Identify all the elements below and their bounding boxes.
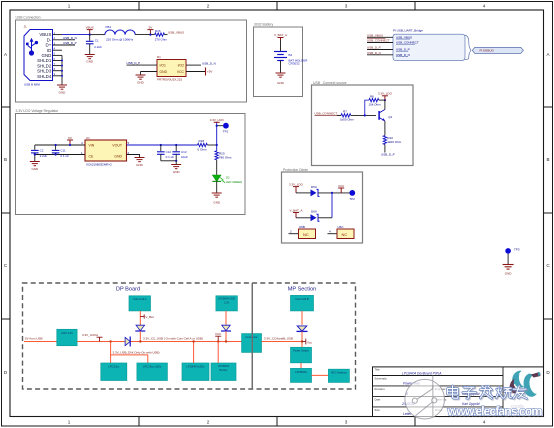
- svg-text:B: B: [4, 157, 7, 162]
- svg-text:TP3: TP3: [514, 247, 520, 251]
- svg-text:C12: C12: [166, 150, 172, 154]
- svg-text:CE: CE: [89, 154, 95, 158]
- divider overlay: [251, 283, 253, 389]
- ground U1: [135, 158, 145, 162]
- capacitor C13: [175, 144, 177, 146]
- wire VBUS rail: [62, 34, 90, 36]
- power 3.3V_LDO: [216, 122, 218, 145]
- title block frame: [373, 367, 544, 417]
- wire to net: [384, 145, 386, 153]
- svg-text:DP Board: DP Board: [116, 286, 140, 292]
- svg-text:GND: GND: [173, 170, 181, 174]
- wire USB_D_P to chip: [127, 64, 158, 66]
- wire to NFC: [312, 374, 329, 376]
- svg-text:5V: 5V: [68, 136, 72, 140]
- svg-text:PRTR5V0U2X,215: PRTR5V0U2X,215: [157, 77, 182, 81]
- watermark circle logo: [405, 376, 445, 420]
- svg-text:2: 2: [207, 420, 210, 425]
- svg-text:D5A: D5A: [311, 185, 317, 189]
- svg-text:FB1: FB1: [106, 25, 112, 29]
- node base junction: [364, 114, 366, 116]
- svg-text:Coin Cell A: Coin Cell A: [133, 297, 147, 301]
- svg-text:USB_VBUS: USB_VBUS: [396, 35, 412, 39]
- svg-text:USB_CONNECT: USB_CONNECT: [396, 41, 419, 45]
- transistor Q1: [379, 110, 385, 121]
- svg-text:0.1 uF: 0.1 uF: [60, 154, 69, 158]
- wire USB_D_N out: [186, 64, 201, 66]
- wire down: [225, 311, 227, 325]
- svg-text:1k00 Ohm: 1k00 Ohm: [340, 118, 354, 122]
- svg-text:USB_D_N: USB_D_N: [396, 53, 410, 57]
- node 3.3V junction: [216, 144, 218, 146]
- svg-text:270 Ohm: 270 Ohm: [155, 38, 168, 42]
- wire LDO to rail: [77, 341, 242, 343]
- svg-text:4: 4: [483, 4, 486, 9]
- svg-text:3.3V_USB_DN( Only On with USB): 3.3V_USB_DN( Only On with USB): [113, 350, 160, 354]
- ground connector shield: [57, 85, 67, 89]
- svg-text:Vcc: Vcc: [307, 341, 313, 345]
- emitter wire: [384, 121, 386, 136]
- block Coin Cell A: [129, 296, 151, 311]
- svg-text:GND: GND: [213, 201, 221, 205]
- capacitor C12: [160, 144, 162, 146]
- node: [149, 34, 151, 36]
- wire: [280, 40, 282, 52]
- node collector top: [384, 99, 386, 101]
- svg-text:GND: GND: [86, 60, 94, 64]
- connector pin names: [37, 32, 52, 79]
- svg-text:R6: R6: [370, 95, 374, 99]
- wire GND pin: [127, 155, 140, 158]
- svg-text:R7: R7: [343, 110, 347, 114]
- svg-text:TP1: TP1: [223, 130, 229, 134]
- svg-text:D6A: D6A: [311, 210, 317, 214]
- ground input caps: [30, 162, 40, 166]
- svg-text:GND: GND: [160, 70, 168, 74]
- wire switch to LPCB404: [300, 363, 302, 369]
- svg-text:SHLD4: SHLD4: [37, 74, 52, 79]
- svg-text:GND: GND: [137, 80, 145, 84]
- svg-text:B: B: [546, 157, 549, 162]
- wire to vertical: [318, 217, 332, 219]
- svg-text:Q1: Q1: [388, 115, 392, 119]
- block Connector: [242, 334, 262, 353]
- svg-text:USB Connection: USB Connection: [16, 16, 41, 20]
- wire coin cell A down: [139, 311, 141, 325]
- block LPCB404 LEDs: [182, 363, 209, 381]
- svg-text:PI USB_UART_Bridge: PI USB_UART_Bridge: [393, 29, 423, 33]
- svg-text:VOUT: VOUT: [112, 144, 123, 148]
- svg-text:0.1 uF: 0.1 uF: [166, 155, 175, 159]
- capacitor C2: [34, 145, 36, 150]
- svg-text:3.3V_CC_USB ( On with Coin Cel: 3.3V_CC_USB ( On with Coin Cell A or USB…: [143, 337, 203, 341]
- node: [331, 192, 333, 194]
- svg-text:VIN: VIN: [89, 144, 95, 148]
- block NFC Antenna: [328, 369, 349, 382]
- svg-text:U6C: U6C: [338, 225, 345, 229]
- svg-text:GND: GND: [277, 81, 285, 85]
- svg-text:www.elecfans.com: www.elecfans.com: [447, 404, 543, 418]
- svg-text:3032 Battery: 3032 Battery: [254, 23, 274, 27]
- block LPC13xx: [101, 363, 127, 381]
- svg-text:Size:: Size:: [375, 408, 381, 412]
- svg-text:J1: J1: [24, 25, 28, 29]
- svg-text:USB_CONNECT: USB_CONNECT: [315, 111, 338, 115]
- diode B down: [222, 325, 231, 331]
- test point TP1: [217, 125, 223, 127]
- wire to base junction: [351, 114, 376, 116]
- wire: [280, 61, 282, 74]
- logo bird: [510, 371, 542, 398]
- svg-text:NC: NC: [303, 232, 309, 237]
- svg-text:GND: GND: [31, 167, 39, 171]
- ground ESD: [136, 75, 146, 79]
- svg-text:USB_D_N: USB_D_N: [63, 36, 77, 40]
- svg-text:1k00 Ohm: 1k00 Ohm: [387, 140, 401, 144]
- wire: [296, 217, 311, 219]
- ground LED: [212, 193, 222, 197]
- svg-text:3.3V: 3.3V: [224, 301, 229, 304]
- svg-text:USB_D_P: USB_D_P: [367, 46, 381, 50]
- svg-text:R16: R16: [155, 29, 161, 33]
- svg-text:3.3V_LDO: 3.3V_LDO: [378, 92, 393, 96]
- wire: [296, 192, 311, 194]
- svg-text:C11: C11: [60, 148, 66, 152]
- wire to node: [318, 192, 352, 194]
- wire to USB_D_P: [367, 49, 393, 51]
- svg-text:780 Ohm: 780 Ohm: [219, 156, 232, 160]
- wire rail to LPCB404 LEDs: [193, 342, 195, 364]
- power Vcc tap MP: [302, 339, 306, 345]
- block LPCB404 MP: [291, 368, 312, 382]
- svg-text:C1: C1: [95, 39, 99, 43]
- svg-text:Revision:: Revision:: [375, 387, 386, 391]
- diode A down: [136, 325, 145, 331]
- test point TP2: [349, 190, 355, 196]
- shield bus wire to ground: [61, 55, 63, 85]
- svg-text:2: 2: [207, 4, 210, 9]
- block Coin Cell B: [291, 295, 314, 311]
- node: [109, 340, 111, 342]
- svg-text:3: 3: [345, 420, 348, 425]
- svg-text:C2: C2: [40, 148, 44, 152]
- svg-text:3.3V LDO Voltage Regulator: 3.3V LDO Voltage Regulator: [16, 109, 60, 113]
- LED D2 green: [212, 175, 221, 181]
- svg-text:3.3V_LDO: 3.3V_LDO: [289, 182, 304, 186]
- svg-text:VCC: VCC: [338, 184, 345, 188]
- svg-text:5V: 5V: [149, 25, 153, 29]
- wire VIN rail: [35, 144, 85, 146]
- svg-text:USB_D_P: USB_D_P: [396, 48, 410, 52]
- wire junction down: [331, 193, 333, 218]
- ground under C1: [85, 55, 95, 59]
- wire GND pin: [141, 71, 158, 73]
- svg-text:LPCB404 DevBoard P(P)A: LPCB404 DevBoard P(P)A: [402, 371, 442, 375]
- wire to USB_VBUS: [367, 36, 393, 38]
- block LDO 3.3V: [57, 329, 77, 345]
- wire up to R6: [365, 100, 369, 115]
- block Power Switch: [291, 347, 312, 363]
- dashed boundary DP/MP: [23, 283, 356, 389]
- svg-text:U6B: U6B: [299, 225, 305, 229]
- harness entries: [396, 35, 419, 57]
- diode MP down: [297, 326, 307, 331]
- svg-text:LPC13xx: LPC13xx: [108, 364, 120, 368]
- svg-text:I/O2: I/O2: [178, 63, 185, 67]
- svg-text:LED GREEN: LED GREEN: [226, 180, 242, 184]
- svg-text:Protection Diode: Protection Diode: [283, 168, 308, 172]
- node VBUS junction: [89, 34, 91, 36]
- wire cap bottoms: [161, 160, 176, 162]
- diode DP rail: [125, 337, 130, 345]
- svg-text:GND: GND: [114, 154, 122, 158]
- svg-text:USB_D_P: USB_D_P: [127, 61, 141, 65]
- svg-text:USB_D_N: USB_D_N: [202, 61, 216, 65]
- svg-text:MP Section: MP Section: [288, 286, 317, 292]
- svg-text:PI DEBUG: PI DEBUG: [480, 49, 495, 53]
- svg-text:LPCB404 GND: LPCB404 GND: [218, 298, 235, 301]
- svg-text:LPCB404: LPCB404: [295, 370, 307, 374]
- USB icon: [26, 38, 38, 55]
- svg-text:1: 1: [68, 4, 71, 9]
- svg-text:0 Ohm: 0 Ohm: [198, 148, 208, 152]
- block LPCB404 GND 3.3V: [216, 296, 238, 311]
- svg-text:LDO 3.3V: LDO 3.3V: [61, 331, 73, 335]
- svg-text:LPC13xx LEDs: LPC13xx LEDs: [143, 364, 162, 368]
- svg-text:1: 1: [68, 420, 71, 425]
- svg-text:XC6219B332MR-G: XC6219B332MR-G: [86, 162, 113, 166]
- svg-text:3: 3: [345, 4, 348, 9]
- resistor R10: [383, 136, 386, 145]
- svg-text:GND: GND: [505, 272, 513, 276]
- svg-text:V_BAT_A: V_BAT_A: [290, 208, 303, 212]
- svg-text:VBUS: VBUS: [86, 25, 94, 29]
- svg-text:GND: GND: [136, 163, 144, 167]
- divider DP|MP: [251, 283, 253, 389]
- wire connector to MP: [262, 341, 303, 343]
- watermark url text: [447, 404, 544, 419]
- svg-text:D1: D1: [157, 55, 161, 59]
- svg-text:2.2uF: 2.2uF: [40, 154, 48, 158]
- battery B1: [274, 52, 287, 61]
- svg-text:Buzzer: Buzzer: [219, 368, 227, 372]
- svg-text:3.3V_CCAandB_USB: 3.3V_CCAandB_USB: [264, 337, 293, 341]
- wire LED to gnd: [216, 181, 218, 193]
- svg-text:USB_ Connect source: USB_ Connect source: [313, 81, 347, 85]
- svg-text:V_Bat: V_Bat: [145, 315, 153, 319]
- node MP junction: [301, 340, 303, 342]
- wire coin cell B down: [301, 311, 303, 325]
- wire: [135, 34, 155, 36]
- svg-text:GND: GND: [59, 91, 67, 95]
- svg-text:4: 4: [483, 420, 486, 425]
- svg-text:USB_D_P: USB_D_P: [63, 41, 77, 45]
- svg-text:220 Ohm @ 100kHz: 220 Ohm @ 100kHz: [106, 38, 134, 42]
- power V_Bat tap: [140, 314, 144, 318]
- svg-text:Coin Cell B: Coin Cell B: [295, 297, 309, 301]
- svg-text:NC: NC: [342, 232, 348, 237]
- svg-text:Date:: Date:: [375, 397, 381, 401]
- svg-text:CR3032: CR3032: [289, 62, 300, 66]
- ground battery: [276, 73, 286, 77]
- svg-text:10k Ohm: 10k Ohm: [369, 102, 382, 106]
- svg-text:LPCB404: LPCB404: [218, 364, 230, 368]
- svg-text:3.3V_LDOA: 3.3V_LDOA: [82, 333, 98, 337]
- wire to USB_CONNECT: [367, 42, 393, 44]
- svg-text:Connector: Connector: [246, 335, 258, 339]
- wire CE rail: [35, 154, 85, 156]
- svg-text:I/O1: I/O1: [160, 63, 167, 67]
- svg-text:5V from USB: 5V from USB: [25, 336, 43, 340]
- power +5V bar: [186, 71, 205, 73]
- svg-text:VCC: VCC: [215, 332, 222, 336]
- svg-text:USB_D_N: USB_D_N: [367, 51, 381, 55]
- svg-text:USB_VBUS: USB_VBUS: [168, 31, 184, 35]
- sheet symbol PI DEBUG: [472, 47, 523, 53]
- resistor R20: [216, 145, 218, 151]
- block LPC13xx LEDs: [137, 363, 168, 381]
- net 3.3V_USB_DN branch: [110, 342, 112, 364]
- svg-text:C13: C13: [181, 150, 187, 154]
- svg-text:Schematic:: Schematic:: [375, 376, 388, 380]
- svg-text:3.3V_LDO: 3.3V_LDO: [210, 118, 225, 122]
- pin stubs 1-9: [53, 35, 76, 76]
- svg-text:Power Switch: Power Switch: [293, 349, 309, 353]
- svg-text:TP2: TP2: [349, 197, 355, 201]
- svg-text:USB_CONNECT: USB_CONNECT: [367, 39, 390, 43]
- svg-text:LPCB404 LEDs: LPCB404 LEDs: [186, 364, 205, 368]
- test point TP3: [503, 247, 520, 275]
- svg-text:+5V: +5V: [207, 70, 212, 74]
- block LPCB404 Buzzer: [211, 363, 236, 381]
- svg-text:B1: B1: [289, 53, 293, 57]
- svg-text:R18: R18: [199, 139, 205, 143]
- capacitor C11: [55, 145, 57, 150]
- ground output caps: [171, 165, 181, 169]
- svg-text:USB_VBUS: USB_VBUS: [367, 33, 383, 37]
- wire rail to buzzer: [217, 342, 219, 364]
- svg-text:NFC Antenna: NFC Antenna: [331, 371, 347, 375]
- wire VOUT rail: [127, 144, 198, 146]
- wire to LED: [216, 160, 218, 175]
- svg-text:USB B MINI: USB B MINI: [24, 83, 40, 87]
- svg-text:USB_D_P: USB_D_P: [381, 153, 395, 157]
- svg-text:Title:: Title:: [375, 367, 381, 371]
- svg-text:U1: U1: [86, 136, 90, 140]
- svg-text:VCC: VCC: [177, 70, 185, 74]
- wire to USB_D_N: [367, 54, 393, 56]
- capacitor C1: [89, 35, 91, 41]
- svg-text:2.2uF: 2.2uF: [94, 45, 102, 49]
- svg-text:V_BAT_A: V_BAT_A: [274, 33, 287, 37]
- svg-text:10uF: 10uF: [181, 155, 188, 159]
